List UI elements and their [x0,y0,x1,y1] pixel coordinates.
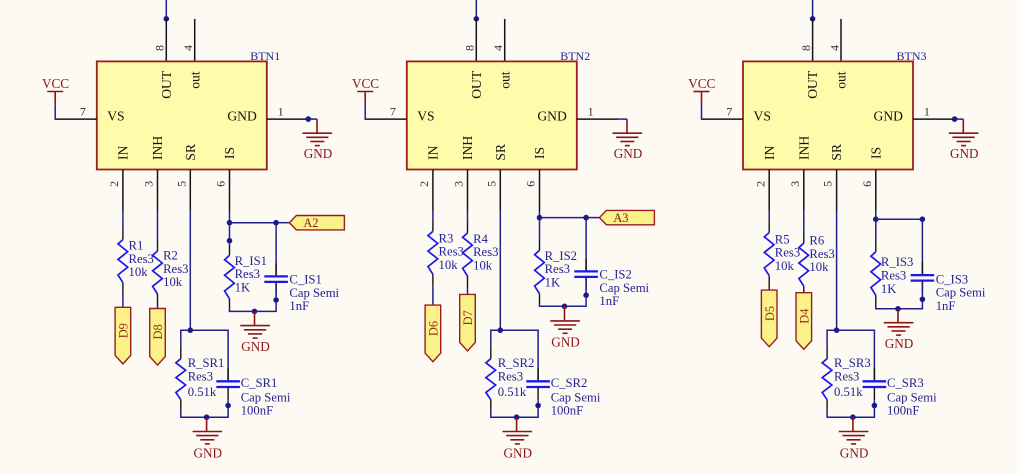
svg-text:2: 2 [753,181,767,187]
resistor R1 [118,240,128,283]
resistor R_IS1 [225,255,235,298]
wire IS node down to resistor R_IS2 [539,218,541,240]
capacitor C_IS1 top lead [275,263,277,276]
wire pin 6 down to node of BTN1 [229,212,231,223]
wire pin 1 to ground of BTN3 [955,118,964,120]
junction below capacitor C_IS1 [273,297,279,303]
ground symbol GND of IS network of BTN1 [254,311,256,325]
junction at cap branch of BTN1 [273,220,279,226]
wire capacitor C_IS1 to bottom rail [275,283,277,312]
svg-text:GND: GND [504,445,533,460]
svg-text:out: out [497,71,512,89]
junction at SR ground of BTN1 [204,414,210,420]
capacitor C_SR3 top lead [873,368,875,381]
svg-text:BTN3: BTN3 [897,49,927,63]
svg-text:D9: D9 [117,323,131,338]
pin 6 (IS) of BTN2 [539,170,541,212]
svg-text:Res3: Res3 [834,369,859,383]
svg-text:10k: 10k [439,258,459,272]
svg-text:GND: GND [227,109,257,124]
svg-text:R1: R1 [129,239,144,253]
pin 2 (IN) of BTN1 [122,170,124,212]
svg-text:GND: GND [874,109,904,124]
wire pin to resistor R5 [768,212,770,221]
wire pin 5 down to SR node of BTN2 [499,212,501,330]
svg-text:IS: IS [532,147,547,159]
pin 1 (GND) of BTN3 [913,118,955,120]
junction below capacitor C_IS2 [583,292,589,298]
junction at SR node of BTN2 [498,327,504,333]
ground symbol GND of SR network of BTN1 [206,417,208,431]
svg-text:VCC: VCC [352,76,379,91]
wire resistor R6 to connector D4 [803,293,805,299]
svg-text:A3: A3 [613,211,628,225]
svg-text:6: 6 [214,181,228,187]
svg-text:out: out [187,71,202,89]
wire down to resistor R_SR1 [180,330,182,347]
resistor R_SR2 top lead [490,347,492,359]
svg-text:Res3: Res3 [881,269,906,283]
wire SR top rail of BTN1 [180,329,229,331]
svg-text:10k: 10k [809,260,829,274]
junction at SR node of BTN3 [834,327,840,333]
svg-text:Res3: Res3 [809,247,834,261]
svg-text:0.51k: 0.51k [188,385,217,399]
svg-text:OUT: OUT [469,70,484,99]
pin 8 stub (OUT) of BTN1 [165,19,167,62]
wire bottom rail of SR network of BTN2 [490,416,539,418]
svg-text:7: 7 [390,105,396,119]
svg-text:Cap Semi: Cap Semi [551,390,601,404]
svg-text:IN: IN [426,145,441,160]
wire resistor R_SR2 to bottom rail [490,412,492,418]
junction on OUT wire at pin 8 of BTN2 [474,16,480,22]
capacitor C_IS1 bottom lead [275,282,277,295]
wire IS node to cap branch of BTN3 [876,218,923,220]
capacitor C_SR2 [526,380,550,382]
capacitor C_SR1 top lead [227,368,229,381]
svg-text:7: 7 [726,105,732,119]
wire cap branch down to capacitor C_IS2 [585,218,587,271]
ground symbol GND at pin 1 of BTN3 [962,119,964,133]
resistor R2 top lead [157,239,159,251]
resistor R6 bottom lead [803,286,805,298]
svg-text:IN: IN [762,145,777,160]
junction on OUT wire at pin 8 of BTN1 [164,16,170,22]
wire pin 5 down to SR node of BTN3 [836,212,838,330]
ground symbol GND of IS network of BTN3 [897,309,899,323]
svg-text:VS: VS [107,109,124,124]
svg-text:100nF: 100nF [241,404,273,418]
junction below capacitor C_SR2 [535,403,541,409]
junction at IS ground of BTN2 [562,304,568,310]
resistor R_SR1 top lead [180,347,182,359]
pin 1 (GND) of BTN1 [267,118,309,120]
svg-text:R_SR2: R_SR2 [498,356,535,370]
resistor R_SR3 [822,359,832,400]
resistor R3 top lead [432,219,434,231]
svg-text:R_SR3: R_SR3 [834,356,871,370]
wire resistor R_SR1 to bottom rail [180,412,182,418]
junction at IS node of BTN2 [537,215,543,221]
resistor R3 [428,231,438,274]
svg-text:Cap Semi: Cap Semi [887,390,937,404]
svg-text:out: out [834,71,849,89]
svg-text:GND: GND [614,146,643,161]
svg-text:VCC: VCC [688,76,715,91]
svg-text:OUT: OUT [159,70,174,99]
svg-text:10k: 10k [163,275,183,289]
wire VCC to pin 7 of BTN2 [364,104,366,120]
wire capacitor C_SR3 to bottom rail [873,400,875,417]
svg-text:INH: INH [460,136,475,160]
junction at IS node of BTN3 [873,216,879,222]
wire pin to resistor R3 [432,212,434,220]
svg-text:1nF: 1nF [936,299,956,313]
svg-text:R_IS1: R_IS1 [235,254,267,268]
junction at pin 1 of BTN1 [306,116,312,122]
svg-text:10k: 10k [775,259,795,273]
svg-text:INH: INH [150,136,165,160]
wire capacitor C_IS3 to bottom rail [921,282,923,309]
svg-text:Res3: Res3 [129,252,154,266]
resistor R2 bottom lead [157,294,159,306]
resistor R5 [764,233,774,276]
connector D7 [460,294,476,351]
resistor R_SR1 [176,359,186,400]
resistor R3 bottom lead [432,274,434,286]
resistor R6 top lead [803,231,805,243]
svg-text:1: 1 [588,104,594,118]
junction below capacitor C_SR3 [872,403,878,409]
wire resistor R_SR3 to bottom rail [826,412,828,418]
wire bottom rail of IS network of BTN1 [229,310,277,312]
junction on OUT wire at pin 8 of BTN3 [810,16,816,22]
svg-text:2: 2 [107,181,121,187]
resistor R1 top lead [122,228,124,240]
svg-text:BTN1: BTN1 [250,49,280,63]
capacitor C_IS2 bottom lead [585,277,587,290]
power symbol VCC at BTN3 [701,92,703,105]
svg-text:C_SR2: C_SR2 [551,376,588,390]
svg-text:1K: 1K [235,281,251,295]
resistor R2 [153,251,163,294]
pin 7 (VS) of BTN1 [55,118,97,120]
svg-text:Res3: Res3 [498,369,523,383]
svg-text:Res3: Res3 [473,245,498,259]
capacitor C_SR1 bottom lead [227,387,229,400]
wire resistor R_IS1 to bottom rail [229,309,231,312]
resistor R_SR1 bottom lead [180,400,182,412]
svg-text:GND: GND [950,146,979,161]
wire pin to resistor R6 [803,212,805,231]
resistor R4 [463,233,473,276]
svg-text:A2: A2 [303,216,318,230]
junction at IS node of BTN1 [227,220,233,226]
resistor R_SR3 top lead [826,347,828,359]
svg-text:R_SR1: R_SR1 [188,356,225,370]
svg-text:Cap Semi: Cap Semi [599,281,649,295]
svg-text:2: 2 [417,181,431,187]
svg-text:8: 8 [463,45,477,51]
IC BTN1 body (power switch) [97,61,267,169]
junction at SR ground of BTN2 [514,414,520,420]
resistor R_IS2 [535,250,545,293]
wire bottom rail of SR network of BTN3 [826,416,875,418]
svg-text:D5: D5 [763,306,777,321]
junction at SR node of BTN1 [188,327,194,333]
svg-text:100nF: 100nF [887,404,919,418]
resistor R4 top lead [467,221,469,233]
svg-text:D6: D6 [427,321,441,336]
svg-text:4: 4 [827,45,841,51]
ground symbol GND at pin 1 of BTN1 [316,119,318,133]
svg-text:8: 8 [799,45,813,51]
svg-text:6: 6 [860,181,874,187]
svg-text:VCC: VCC [42,76,69,91]
wire IS node down to resistor R_IS3 [875,219,877,241]
capacitor C_IS2 [574,270,598,272]
svg-text:Res3: Res3 [235,267,260,281]
svg-text:GND: GND [241,339,270,354]
wire pin to resistor R1 [122,212,124,228]
wire SR top rail of BTN2 [490,329,539,331]
svg-text:6: 6 [524,181,538,187]
capacitor C_SR2 bottom lead [537,387,539,400]
svg-text:D7: D7 [461,310,475,325]
capacitor C_IS3 [911,274,935,276]
resistor R4 bottom lead [467,276,469,288]
junction at IS ground of BTN1 [252,309,258,315]
ground symbol GND of IS network of BTN2 [564,306,566,321]
svg-text:SR: SR [183,143,198,161]
connector D6 [425,305,441,362]
svg-text:GND: GND [537,109,567,124]
svg-text:GND: GND [551,334,580,349]
svg-text:R4: R4 [473,232,488,246]
svg-text:4: 4 [181,45,195,51]
resistor R_IS2 top lead [539,240,541,250]
wire net OUT top (to off-page) at BTN2 [475,0,477,19]
wire resistor R5 to connector D5 [768,288,770,291]
wire bottom rail of IS network of BTN3 [875,308,923,310]
connector D8 [150,309,166,366]
wire resistor R_IS3 to bottom rail [875,305,877,309]
wire cap branch down to capacitor C_IS1 [275,223,277,276]
wire to net flag A2 [276,222,289,224]
svg-text:1nF: 1nF [289,299,309,313]
junction at cap branch of BTN3 [920,216,926,222]
wire capacitor C_SR2 to bottom rail [537,400,539,417]
svg-text:4: 4 [491,45,505,51]
svg-text:GND: GND [840,445,869,460]
svg-text:SR: SR [493,143,508,161]
pin 5 (SR) of BTN1 [189,170,191,212]
pin 4 stub (out) of BTN2 [504,19,506,62]
resistor R_IS1 bottom lead [229,299,231,309]
svg-text:5: 5 [821,181,835,187]
resistor R_SR2 bottom lead [490,400,492,412]
svg-text:Cap Semi: Cap Semi [289,286,339,300]
svg-text:D8: D8 [151,324,165,339]
junction below IS node of BTN1 [227,238,233,244]
pin 7 (VS) of BTN3 [702,118,744,120]
svg-text:R3: R3 [439,232,454,246]
svg-text:OUT: OUT [805,70,820,99]
svg-text:BTN2: BTN2 [560,49,590,63]
resistor R_IS3 [871,252,881,295]
svg-text:C_IS1: C_IS1 [289,273,321,287]
wire net OUT top (to off-page) at BTN3 [812,0,814,19]
svg-text:Res3: Res3 [163,262,188,276]
svg-text:IS: IS [222,147,237,159]
capacitor C_SR1 [216,380,240,382]
wire down to capacitor C_SR3 [873,330,875,380]
svg-text:1K: 1K [881,282,897,296]
svg-text:100nF: 100nF [551,404,583,418]
svg-text:Res3: Res3 [188,369,213,383]
wire resistor R3 to connector D6 [432,286,434,305]
wire down to resistor R_SR2 [490,330,492,347]
wire pin 6 down to node of BTN3 [875,212,877,219]
pin 3 (INH) of BTN3 [803,170,805,212]
resistor R1 bottom lead [122,283,124,295]
wire resistor R_IS2 to bottom rail [539,304,541,307]
pin 5 (SR) of BTN3 [836,170,838,212]
svg-text:R6: R6 [809,234,824,248]
wire VCC to pin 7 of BTN3 [701,104,703,120]
svg-text:VS: VS [417,109,434,124]
svg-text:0.51k: 0.51k [834,385,863,399]
svg-text:R_IS2: R_IS2 [545,249,577,263]
svg-text:GND: GND [885,336,914,351]
ground symbol GND at pin 1 of BTN2 [626,119,628,133]
svg-text:5: 5 [174,181,188,187]
svg-text:C_SR1: C_SR1 [241,376,278,390]
pin 2 (IN) of BTN2 [432,170,434,212]
capacitor C_SR3 [863,380,887,382]
capacitor C_SR3 bottom lead [873,387,875,400]
svg-text:R2: R2 [163,249,178,263]
svg-text:7: 7 [80,105,86,119]
wire cap branch down to capacitor C_IS3 [921,219,923,274]
svg-text:Res3: Res3 [545,262,570,276]
wire down to capacitor C_SR1 [227,330,229,380]
wire IS node to cap branch of BTN2 [540,217,587,219]
wire down to capacitor C_SR2 [537,330,539,380]
pin 2 (IN) of BTN3 [768,170,770,212]
capacitor C_SR2 top lead [537,368,539,381]
junction below capacitor C_SR1 [225,403,231,409]
pin 6 (IS) of BTN1 [229,170,231,212]
svg-text:IS: IS [868,147,883,159]
svg-text:INH: INH [796,136,811,160]
junction below capacitor C_IS3 [920,297,926,303]
pin 5 (SR) of BTN2 [499,170,501,212]
svg-text:C_IS2: C_IS2 [599,268,631,282]
capacitor C_IS3 bottom lead [921,281,923,294]
capacitor C_IS3 top lead [921,262,923,275]
svg-text:Cap Semi: Cap Semi [936,286,986,300]
svg-text:1: 1 [278,104,284,118]
resistor R_IS2 bottom lead [539,294,541,304]
svg-text:1nF: 1nF [599,294,619,308]
svg-text:3: 3 [452,181,466,187]
ground symbol GND of SR network of BTN3 [852,417,854,431]
wire pin 6 down to node of BTN2 [539,212,541,218]
wire pin to resistor R2 [157,212,159,239]
pin 6 (IS) of BTN3 [875,170,877,212]
svg-text:R5: R5 [775,232,790,246]
resistor R_IS1 top lead [229,245,231,255]
wire resistor R1 to connector D9 [122,295,124,308]
svg-text:C_SR3: C_SR3 [887,376,924,390]
wire capacitor C_IS2 to bottom rail [585,278,587,306]
svg-text:VS: VS [754,109,771,124]
wire VCC to pin 7 of BTN1 [54,104,56,120]
svg-text:10k: 10k [473,258,493,272]
connector D4 [796,293,812,350]
svg-text:Cap Semi: Cap Semi [241,390,291,404]
wire net OUT top (to off-page) at BTN1 [165,0,167,19]
pin 7 (VS) of BTN2 [365,118,407,120]
resistor R_SR2 [486,359,496,400]
capacitor C_IS2 top lead [585,258,587,271]
svg-text:IN: IN [116,145,131,160]
pin 4 stub (out) of BTN1 [194,19,196,62]
wire resistor R4 to connector D7 [467,288,469,294]
pin 8 stub (OUT) of BTN2 [475,19,477,62]
wire capacitor C_SR1 to bottom rail [227,400,229,417]
ground symbol GND of SR network of BTN2 [516,417,518,431]
wire to net flag A3 [586,217,599,219]
svg-text:5: 5 [484,181,498,187]
svg-text:3: 3 [788,181,802,187]
wire down to resistor R_SR3 [826,330,828,347]
svg-text:Res3: Res3 [775,246,800,260]
pin 3 (INH) of BTN2 [467,170,469,212]
capacitor C_IS1 [264,275,288,277]
wire pin 1 to ground of BTN1 [308,118,317,120]
net flag A2 [289,216,344,230]
connector D5 [761,290,777,347]
svg-text:3: 3 [142,181,156,187]
junction at cap branch of BTN2 [583,215,589,221]
svg-text:SR: SR [829,143,844,161]
junction at pin 1 of BTN3 [952,116,958,122]
wire bottom rail of IS network of BTN2 [539,305,587,307]
resistor R6 [799,243,809,286]
resistor R_SR3 bottom lead [826,400,828,412]
svg-text:Res3: Res3 [439,245,464,259]
power symbol VCC at BTN1 [54,92,56,105]
junction at SR ground of BTN3 [850,414,856,420]
resistor R5 top lead [768,221,770,233]
wire SR top rail of BTN3 [826,329,875,331]
svg-text:10k: 10k [129,265,149,279]
wire pin 5 down to SR node of BTN1 [189,212,191,330]
svg-text:C_IS3: C_IS3 [936,272,968,286]
wire IS node down to resistor R_IS1 [229,223,231,245]
IC BTN2 body (power switch) [407,61,577,169]
junction at IS ground of BTN3 [895,306,901,312]
pin 4 stub (out) of BTN3 [840,19,842,62]
svg-text:GND: GND [194,445,223,460]
pin 8 stub (OUT) of BTN3 [812,19,814,62]
wire bottom rail of SR network of BTN1 [180,416,229,418]
pin 3 (INH) of BTN1 [157,170,159,212]
wire IS node to cap branch of BTN1 [230,222,277,224]
